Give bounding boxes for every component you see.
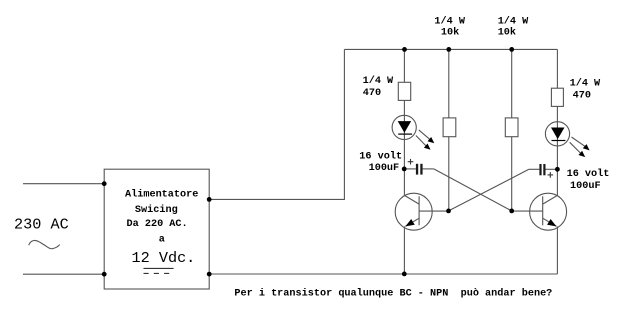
junction dot box left bottom	[102, 272, 107, 277]
capacitor C2 wire right	[546, 168, 558, 170]
transistor Q2 emitter diagonal	[543, 218, 557, 226]
wire: branch3 R3 to node	[511, 137, 513, 211]
LED D1 arrow 2 head	[424, 144, 431, 150]
svg-text:1/4 W: 1/4 W	[570, 78, 601, 90]
junction dot rail branch1	[402, 47, 407, 52]
LED D1 circle	[392, 115, 416, 139]
LED D2 circle	[545, 122, 569, 146]
junction dot box right bottom	[207, 272, 212, 277]
svg-text:16 volt: 16 volt	[359, 150, 402, 162]
wire: Q1 emitter to bottom rail	[403, 226, 405, 274]
svg-text:1/4 W: 1/4 W	[498, 15, 529, 27]
resistor R1 470	[398, 82, 410, 100]
junction dot box left top	[102, 181, 107, 186]
junction dot C2 node	[555, 167, 560, 172]
resistor R2 10k	[443, 118, 456, 137]
junction dot rail branch3	[509, 47, 514, 52]
svg-text:a: a	[159, 234, 165, 245]
svg-text:10k: 10k	[441, 27, 459, 39]
wire: Q2 emitter to bottom rail	[556, 226, 558, 274]
transistor Q2 collector diagonal	[543, 195, 558, 204]
transistor Q1 collector diagonal	[404, 195, 419, 204]
wire: +12V box to rail riser	[209, 49, 344, 199]
svg-text:Per i transistor qualunque BC: Per i transistor qualunque BC - NPN può …	[234, 287, 552, 299]
wire: bottom 0V rail	[209, 273, 557, 275]
resistor R4 470	[551, 88, 563, 106]
resistor R3 10k	[505, 118, 518, 137]
junction dot emitter bottom rail	[402, 272, 407, 277]
LED D1 arrow 1 head	[428, 137, 435, 143]
wire: C1 to Q2 base diagonal	[434, 169, 512, 211]
DC symbol solid line	[144, 267, 174, 269]
AC sine symbol	[29, 240, 60, 248]
svg-text:1/4 W: 1/4 W	[434, 15, 465, 27]
LED D2 triangle	[551, 128, 565, 140]
wire: branch1 through LED to C1 node and Q1 collector	[403, 115, 405, 195]
svg-text:12 Vdc.: 12 Vdc.	[132, 249, 196, 267]
wire: AC input bottom	[23, 273, 104, 275]
transistor Q1 emitter arrowhead	[405, 219, 414, 226]
capacitor C1 wire left	[404, 168, 416, 170]
wire: branch3 rail to R3	[511, 49, 513, 118]
LED D1 light arrow 2 shaft	[416, 136, 426, 146]
capacitor C2 wire left	[529, 168, 540, 170]
svg-text:470: 470	[573, 91, 591, 102]
svg-text:470: 470	[363, 88, 381, 99]
DC symbol dashed line	[144, 272, 174, 274]
capacitor C1 plate left	[416, 164, 418, 175]
svg-text:Alimentatore: Alimentatore	[125, 189, 198, 201]
svg-text:100uF: 100uF	[570, 181, 601, 192]
capacitor C1 plate right	[420, 164, 422, 175]
wire: branch2 R2 to Q2-base-node	[448, 137, 450, 211]
LED D2 arrow 2 head	[579, 151, 586, 157]
wire: branch4 through LED to C2 node and Q2 collector	[556, 122, 558, 196]
LED D2 arrow 1 head	[583, 144, 590, 150]
transistor Q2 emitter arrowhead	[547, 219, 556, 226]
wire: Q2 base to node	[512, 210, 543, 212]
transistor Q2 circle	[530, 193, 567, 230]
LED D1 light arrow 1 shaft	[419, 130, 430, 139]
transistor Q1 circle	[395, 193, 432, 230]
LED D1 cathode bar	[398, 134, 412, 135]
svg-text:10k: 10k	[498, 27, 516, 39]
wire: Q1 base to node	[419, 210, 448, 212]
wire: AC input top	[23, 183, 104, 185]
junction dot rail branch2	[446, 47, 451, 52]
C2 plus sign	[548, 174, 554, 176]
junction dot box right top	[207, 197, 212, 202]
wire: branch1 rail to R1	[403, 49, 405, 82]
svg-text:100uF: 100uF	[369, 163, 400, 174]
junction dot Q2 base node	[509, 209, 514, 214]
wire: branch4 R4 to LED D2	[556, 106, 558, 121]
power supply box	[104, 169, 209, 289]
transistor Q1 base bar	[418, 196, 420, 225]
C1 plus sign	[408, 161, 414, 163]
capacitor C2 plate left	[539, 164, 541, 175]
wire: branch2 rail to R2	[448, 49, 450, 118]
transistor Q1 emitter diagonal	[405, 218, 419, 226]
LED D2 light arrow 2 shaft	[570, 142, 581, 153]
wire: branch1 R1 to LED D1	[403, 100, 405, 115]
wire: branch4 rail to R4	[556, 49, 558, 88]
svg-text:Swicing: Swicing	[135, 204, 178, 216]
wire: C2 to Q1 base diagonal	[449, 169, 529, 211]
capacitor C2 plate right	[543, 164, 545, 175]
wire: top +12V rail	[344, 48, 557, 50]
junction dot Q1 base node	[446, 209, 451, 214]
svg-text:Da 220 AC.: Da 220 AC.	[127, 219, 188, 230]
svg-text:1/4 W: 1/4 W	[363, 75, 394, 87]
LED D1 triangle	[398, 121, 412, 133]
svg-text:16 volt: 16 volt	[567, 168, 610, 180]
transistor Q2 base bar	[542, 196, 544, 225]
svg-text:230 AC: 230 AC	[14, 215, 69, 233]
junction dot C1 node	[402, 167, 407, 172]
capacitor C1 wire right	[423, 168, 434, 170]
LED D2 cathode bar	[552, 140, 566, 141]
LED D2 light arrow 1 shaft	[572, 137, 585, 146]
